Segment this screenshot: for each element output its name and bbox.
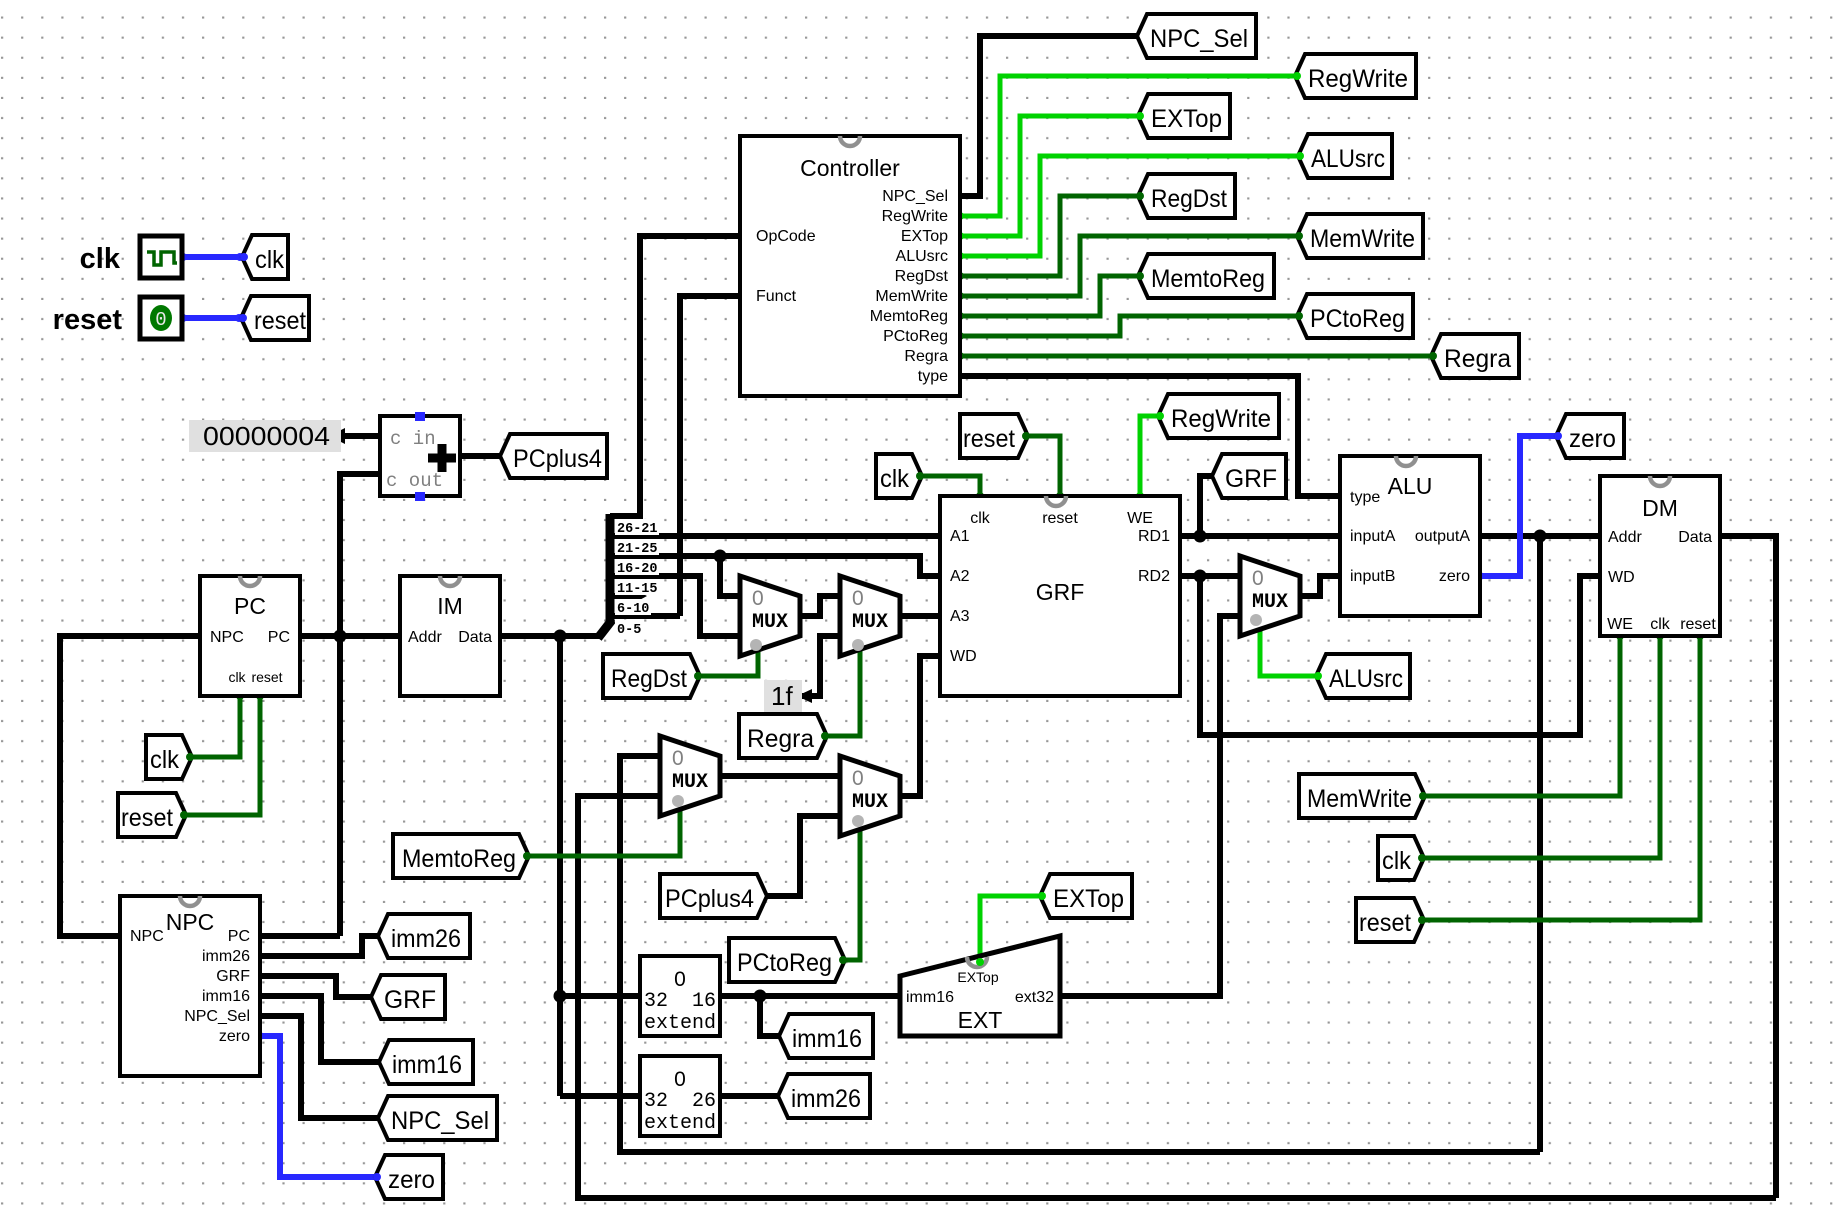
svg-text:PC: PC [268, 629, 290, 646]
svg-text:NPC_Sel: NPC_Sel [184, 1008, 250, 1025]
svg-text:GRF: GRF [216, 968, 250, 985]
svg-text:MemtoReg: MemtoReg [870, 308, 948, 325]
svg-text:outputA: outputA [1415, 528, 1470, 545]
svg-text:RegDst: RegDst [611, 665, 687, 693]
svg-text:RD1: RD1 [1138, 528, 1170, 545]
svg-text:clk: clk [80, 243, 121, 275]
svg-text:NPC: NPC [210, 629, 244, 646]
svg-text:clk: clk [1650, 616, 1671, 633]
svg-text:0: 0 [1252, 567, 1264, 590]
svg-text:clk: clk [1382, 847, 1411, 875]
svg-text:00000004: 00000004 [203, 421, 330, 451]
svg-text:MemtoReg: MemtoReg [402, 845, 516, 873]
svg-text:reset: reset [254, 307, 306, 335]
svg-text:inputA: inputA [1350, 528, 1396, 545]
svg-text:6-10: 6-10 [617, 602, 649, 617]
svg-text:RegDst: RegDst [1151, 185, 1227, 213]
svg-text:PC: PC [234, 593, 266, 619]
svg-text:MemWrite: MemWrite [1310, 225, 1415, 253]
svg-text:PCplus4: PCplus4 [513, 445, 602, 473]
svg-text:MemtoReg: MemtoReg [1151, 265, 1265, 293]
svg-text:OpCode: OpCode [756, 228, 816, 245]
svg-text:0: 0 [674, 968, 686, 991]
svg-text:RegWrite: RegWrite [882, 208, 948, 225]
svg-text:0: 0 [852, 587, 864, 610]
svg-text:0: 0 [155, 309, 166, 331]
svg-text:MemWrite: MemWrite [1307, 785, 1412, 813]
svg-text:type: type [918, 368, 948, 385]
svg-text:reset: reset [53, 304, 123, 336]
svg-text:Addr: Addr [1608, 529, 1642, 546]
svg-text:reset: reset [1042, 510, 1078, 527]
svg-text:EXTop: EXTop [1053, 885, 1124, 913]
svg-text:0: 0 [674, 1068, 686, 1091]
svg-text:32 26: 32 26 [644, 1090, 716, 1113]
svg-text:reset: reset [121, 804, 173, 832]
svg-text:extend: extend [644, 1012, 716, 1035]
svg-text:GRF: GRF [1036, 579, 1085, 605]
svg-text:IM: IM [437, 593, 463, 619]
svg-text:PC: PC [228, 928, 250, 945]
svg-text:zero: zero [219, 1028, 250, 1045]
svg-text:0: 0 [752, 587, 764, 610]
svg-text:imm16: imm16 [792, 1025, 862, 1053]
svg-text:c in: c in [390, 428, 436, 450]
svg-text:32 16: 32 16 [644, 990, 716, 1013]
svg-text:reset: reset [251, 669, 282, 685]
svg-text:RegDst: RegDst [895, 268, 949, 285]
svg-text:ALUsrc: ALUsrc [896, 248, 948, 265]
svg-text:clk: clk [150, 746, 179, 774]
svg-text:zero: zero [388, 1166, 435, 1194]
svg-text:RD2: RD2 [1138, 568, 1170, 585]
svg-text:MUX: MUX [672, 771, 708, 794]
svg-text:imm26: imm26 [391, 925, 461, 953]
svg-text:reset: reset [1359, 909, 1411, 937]
svg-text:EXTop: EXTop [957, 969, 998, 985]
svg-text:A2: A2 [950, 568, 970, 585]
svg-text:clk: clk [255, 246, 284, 274]
svg-text:NPC: NPC [166, 909, 215, 935]
svg-text:clk: clk [228, 669, 246, 685]
svg-text:11-15: 11-15 [617, 582, 658, 597]
svg-text:PCplus4: PCplus4 [665, 885, 754, 913]
svg-text:ext32: ext32 [1015, 989, 1054, 1006]
svg-text:WD: WD [1608, 569, 1635, 586]
svg-text:Data: Data [1678, 529, 1712, 546]
svg-text:NPC_Sel: NPC_Sel [391, 1107, 489, 1135]
svg-text:26-21: 26-21 [617, 522, 658, 537]
svg-text:Regra: Regra [747, 725, 814, 753]
svg-text:WE: WE [1127, 510, 1153, 527]
svg-text:EXTop: EXTop [1151, 105, 1222, 133]
svg-text:NPC_Sel: NPC_Sel [882, 188, 948, 205]
svg-text:EXTop: EXTop [901, 228, 948, 245]
svg-text:GRF: GRF [1225, 465, 1277, 493]
svg-text:Data: Data [458, 629, 492, 646]
svg-text:imm16: imm16 [392, 1051, 462, 1079]
svg-text:EXT: EXT [958, 1007, 1003, 1033]
svg-text:clk: clk [880, 465, 909, 493]
svg-text:ALUsrc: ALUsrc [1329, 665, 1403, 693]
svg-text:0: 0 [672, 747, 684, 770]
svg-text:Controller: Controller [800, 155, 900, 181]
svg-text:PCtoReg: PCtoReg [883, 328, 948, 345]
svg-text:RegWrite: RegWrite [1308, 65, 1408, 93]
svg-text:WD: WD [950, 648, 977, 665]
svg-text:MUX: MUX [852, 791, 888, 814]
svg-text:zero: zero [1439, 568, 1470, 585]
svg-text:16-20: 16-20 [617, 562, 658, 577]
svg-text:imm26: imm26 [791, 1085, 861, 1113]
svg-text:DM: DM [1642, 495, 1678, 521]
svg-text:imm16: imm16 [202, 988, 250, 1005]
svg-text:Regra: Regra [1444, 345, 1511, 373]
svg-text:PCtoReg: PCtoReg [1310, 305, 1405, 333]
svg-text:imm26: imm26 [202, 948, 250, 965]
svg-text:Regra: Regra [904, 348, 948, 365]
svg-text:inputB: inputB [1350, 568, 1395, 585]
svg-text:0-5: 0-5 [617, 623, 641, 638]
svg-text:1f: 1f [771, 681, 793, 711]
svg-text:A3: A3 [950, 608, 970, 625]
svg-text:21-25: 21-25 [617, 542, 658, 557]
svg-text:MUX: MUX [852, 611, 888, 634]
svg-text:Funct: Funct [756, 288, 797, 305]
svg-text:extend: extend [644, 1112, 716, 1135]
svg-text:imm16: imm16 [906, 989, 954, 1006]
svg-text:NPC: NPC [130, 928, 164, 945]
svg-text:MemWrite: MemWrite [875, 288, 948, 305]
svg-text:c out: c out [386, 470, 443, 492]
svg-text:ALU: ALU [1388, 473, 1433, 499]
svg-text:clk: clk [970, 510, 991, 527]
svg-text:Addr: Addr [408, 629, 442, 646]
svg-text:ALUsrc: ALUsrc [1311, 145, 1385, 173]
svg-text:type: type [1350, 489, 1380, 506]
svg-text:WE: WE [1607, 616, 1633, 633]
svg-text:MUX: MUX [752, 611, 788, 634]
svg-text:reset: reset [1680, 616, 1716, 633]
svg-text:RegWrite: RegWrite [1171, 405, 1271, 433]
svg-text:reset: reset [963, 425, 1015, 453]
svg-text:MUX: MUX [1252, 591, 1288, 614]
svg-text:A1: A1 [950, 528, 970, 545]
svg-text:PCtoReg: PCtoReg [737, 949, 832, 977]
svg-text:GRF: GRF [384, 986, 436, 1014]
svg-text:0: 0 [852, 767, 864, 790]
svg-text:NPC_Sel: NPC_Sel [1150, 25, 1248, 53]
svg-text:zero: zero [1569, 425, 1616, 453]
